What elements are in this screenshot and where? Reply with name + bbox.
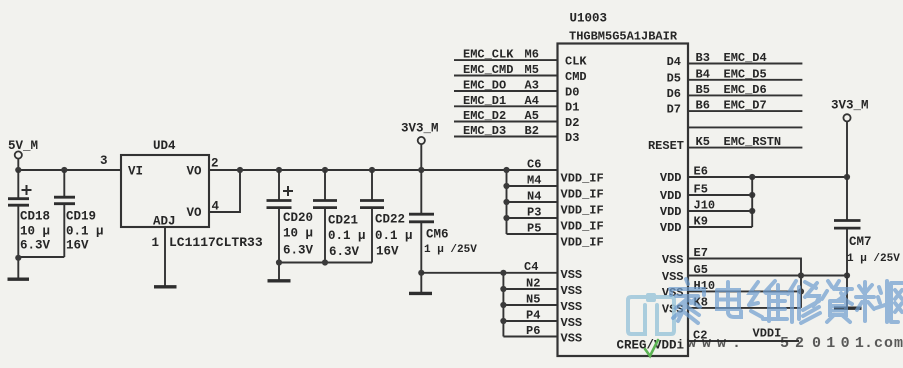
svg-text:VDDI: VDDI	[753, 327, 782, 341]
svg-text:P6: P6	[526, 324, 540, 338]
wire VDD E6 to 3V3 column	[688, 176, 847, 178]
svg-text:VSS: VSS	[561, 284, 583, 298]
wire VSS P4	[503, 320, 557, 322]
svg-text:N2: N2	[526, 277, 540, 291]
svg-text:VDD_IF: VDD_IF	[561, 220, 604, 234]
wire unlabeled pin row	[688, 126, 802, 128]
svg-text:N5: N5	[526, 293, 540, 307]
svg-text:3V3_M: 3V3_M	[831, 99, 869, 113]
node 5V at CD18	[15, 167, 21, 173]
net port 3V3_M (right)	[831, 99, 869, 122]
svg-text:P3: P3	[527, 206, 541, 220]
svg-text:D7: D7	[667, 103, 681, 117]
svg-text:VSS: VSS	[561, 316, 583, 330]
svg-text:VDD_IF: VDD_IF	[561, 236, 604, 250]
svg-text:10 µ: 10 µ	[20, 225, 50, 239]
wire EMC_D3	[454, 136, 558, 138]
svg-text:VDD_IF: VDD_IF	[561, 204, 604, 218]
svg-text:VO: VO	[187, 164, 203, 178]
wire VSS bus vertical (left)	[502, 273, 504, 337]
svg-text:G5: G5	[694, 263, 708, 277]
svg-text:EMC_D4: EMC_D4	[724, 51, 767, 65]
svg-text:F5: F5	[694, 183, 708, 197]
svg-text:E7: E7	[694, 246, 708, 260]
svg-text:16V: 16V	[376, 245, 399, 259]
svg-text:ADJ: ADJ	[153, 215, 176, 229]
wire 5V_M port to rail	[17, 159, 19, 170]
svg-text:CD18: CD18	[20, 210, 50, 224]
svg-text:P4: P4	[526, 309, 540, 323]
wire EMC_D4	[688, 63, 802, 65]
svg-text:6.3V: 6.3V	[329, 245, 360, 259]
node CM6 bottom	[418, 270, 424, 276]
node 5V at CD19	[61, 167, 67, 173]
svg-text:1 µ /25V: 1 µ /25V	[847, 253, 900, 265]
node bus at CD21	[322, 259, 328, 265]
svg-text:D6: D6	[667, 87, 681, 101]
ground below ADJ	[154, 285, 177, 288]
svg-text:EMC_CMD: EMC_CMD	[463, 63, 513, 77]
wire regulator VO to chip (3V3 rail)	[209, 169, 558, 171]
svg-text:16V: 16V	[66, 239, 89, 253]
ground below CM6	[409, 292, 432, 295]
svg-text:6.3V: 6.3V	[20, 239, 51, 253]
wire VSS P6	[503, 336, 557, 338]
wire 3V3_M port down to E6	[846, 121, 848, 177]
wire VDDI C2	[688, 340, 799, 342]
svg-text:0.1 µ: 0.1 µ	[328, 229, 366, 243]
wire VDD_IF P5	[507, 233, 558, 235]
svg-text:.com: .com	[864, 335, 903, 352]
svg-text:VSS: VSS	[561, 300, 583, 314]
node CD18/CD19 gnd leg	[15, 255, 21, 261]
watermark text 家电维修资料网	[670, 279, 903, 323]
家	[670, 279, 704, 323]
svg-text:C4: C4	[524, 260, 538, 274]
net port 3V3_M (middle)	[401, 122, 439, 145]
wire ADJ to ground	[164, 227, 166, 287]
wire VDD F5	[688, 194, 752, 196]
node G5/bus	[798, 272, 804, 278]
wire VSS H10	[688, 290, 801, 292]
ground below CD18	[8, 278, 30, 281]
wire VSS N2	[503, 288, 557, 290]
wire EMC_CLK	[454, 59, 558, 61]
wire VDD J10	[688, 210, 752, 212]
wire EMC_D2	[454, 121, 558, 123]
wire EMC_D5	[688, 79, 802, 81]
wire 3V3_M port to rail	[420, 144, 422, 170]
svg-text:VSS: VSS	[561, 332, 583, 346]
svg-text:52: 52	[780, 335, 810, 352]
svg-text:D4: D4	[667, 55, 681, 69]
op regulator UD4 box	[121, 155, 209, 227]
wire VSS G5 to CM7 column	[688, 275, 847, 277]
svg-text:EMC_D7: EMC_D7	[724, 99, 767, 113]
svg-text:0.1 µ: 0.1 µ	[66, 225, 104, 239]
svg-text:C6: C6	[527, 158, 541, 172]
svg-text:www.: www.	[687, 335, 747, 352]
ground below CD20	[268, 279, 291, 282]
wire EMC_RSTN	[688, 147, 802, 149]
svg-text:VDD_IF: VDD_IF	[561, 188, 604, 202]
svg-text:VDD: VDD	[660, 221, 682, 235]
svg-text:CD22: CD22	[375, 213, 405, 227]
svg-text:EMC_D2: EMC_D2	[463, 109, 506, 123]
svg-text:A3: A3	[525, 79, 539, 93]
node E6/CM7 column	[844, 174, 850, 180]
svg-text:VDD: VDD	[660, 205, 682, 219]
svg-text:K5: K5	[696, 135, 710, 149]
wire 5V rail to regulator VI	[18, 169, 121, 171]
wire VDD_IF M4	[507, 185, 558, 187]
svg-text:3V3_M: 3V3_M	[401, 122, 439, 136]
svg-text:CMD: CMD	[565, 70, 587, 84]
svg-text:CLK: CLK	[565, 54, 587, 68]
svg-text:K9: K9	[694, 215, 708, 229]
wire EMC_D1	[454, 105, 558, 107]
wire CD20/CD21/CD22 ground bus	[279, 262, 372, 264]
svg-text:EMC_D6: EMC_D6	[724, 83, 767, 97]
wire VDD K9	[688, 226, 752, 228]
svg-text:D0: D0	[565, 85, 579, 99]
svg-text:B5: B5	[696, 83, 710, 97]
svg-text:1 µ /25V: 1 µ /25V	[424, 244, 477, 256]
wire EMC_D7	[688, 110, 802, 112]
node VDD_IF C6	[503, 167, 509, 173]
svg-text:CD21: CD21	[328, 214, 358, 228]
svg-text:P5: P5	[527, 222, 541, 236]
svg-text:CM6: CM6	[426, 228, 449, 242]
wire VSS K8	[688, 307, 801, 309]
watermark logo (open book)	[628, 293, 674, 334]
svg-text:J10: J10	[694, 199, 716, 213]
svg-text:UD4: UD4	[153, 139, 176, 153]
svg-text:0.1 µ: 0.1 µ	[375, 229, 413, 243]
svg-text:B3: B3	[696, 51, 710, 65]
wire VDD_IF bus vertical	[506, 170, 508, 234]
svg-text:RESET: RESET	[648, 139, 684, 153]
svg-text:M4: M4	[527, 174, 541, 188]
svg-text:E6: E6	[694, 165, 708, 179]
料	[856, 281, 891, 322]
svg-text:VDD_IF: VDD_IF	[561, 172, 604, 186]
电	[717, 282, 741, 317]
capacitor CD22	[360, 167, 384, 263]
svg-text:VO: VO	[187, 206, 203, 220]
capacitor CD20	[267, 167, 294, 281]
svg-text:D3: D3	[565, 131, 579, 145]
svg-text:THGBM5G5A1JBAIR: THGBM5G5A1JBAIR	[569, 30, 678, 44]
wire VDD bus vertical	[751, 177, 753, 227]
capacitor CD18	[8, 170, 32, 280]
svg-text:EMC_D5: EMC_D5	[724, 67, 767, 81]
svg-text:6.3V: 6.3V	[283, 244, 314, 258]
node bus at CD20	[276, 259, 282, 265]
svg-text:VDD: VDD	[660, 189, 682, 203]
svg-text:D5: D5	[667, 71, 681, 85]
svg-text:CD19: CD19	[66, 210, 96, 224]
svg-text:VSS: VSS	[662, 253, 684, 267]
svg-text:D1: D1	[565, 101, 579, 115]
svg-text:B2: B2	[525, 124, 539, 138]
wire VSS E7 (right)	[688, 259, 801, 308]
check mark overlay	[645, 340, 658, 356]
资	[822, 281, 852, 322]
wire CD19 bottom to CD18 leg	[18, 256, 64, 258]
svg-text:U1003: U1003	[570, 12, 608, 26]
svg-text:EMC_D1: EMC_D1	[463, 94, 506, 108]
wire VDD_IF P3	[507, 217, 558, 219]
net port 5V_M	[8, 139, 38, 159]
node VSS C4	[500, 270, 506, 276]
svg-text:5V_M: 5V_M	[8, 139, 38, 153]
svg-text:3: 3	[100, 154, 108, 168]
svg-text:A4: A4	[525, 94, 539, 108]
svg-text:VDD: VDD	[660, 171, 682, 185]
wire VDD_IF N4	[507, 201, 558, 203]
svg-text:VI: VI	[128, 164, 143, 178]
svg-text:VSS: VSS	[561, 268, 583, 282]
svg-text:EMC_CLK: EMC_CLK	[463, 48, 514, 62]
svg-text:N4: N4	[527, 190, 541, 204]
node rail at CM6	[418, 167, 424, 173]
wire EMC_D6	[688, 94, 802, 96]
svg-text:B6: B6	[696, 99, 710, 113]
svg-text:EMC_RSTN: EMC_RSTN	[724, 135, 782, 149]
svg-text:A5: A5	[525, 109, 539, 123]
svg-text:VSS: VSS	[662, 270, 684, 284]
node pin4 riser on rail	[237, 167, 243, 173]
svg-text:EMC_D3: EMC_D3	[463, 124, 506, 138]
修	[788, 281, 820, 323]
svg-text:CREG/VDDi: CREG/VDDi	[617, 339, 685, 353]
svg-text:M6: M6	[525, 48, 539, 62]
node E6/bus	[749, 174, 755, 180]
watermark url www.520101.com	[687, 335, 903, 352]
svg-text:0101: 0101	[812, 335, 869, 352]
svg-text:M5: M5	[525, 63, 539, 77]
capacitor CM7	[834, 177, 861, 308]
svg-text:CD20: CD20	[283, 211, 313, 225]
网 (cut off at right edge)	[891, 283, 903, 322]
维	[749, 281, 787, 321]
capacitor CM6	[409, 170, 434, 293]
svg-text:2: 2	[211, 157, 219, 171]
svg-text:B4: B4	[696, 67, 710, 81]
wire CM6 bottom to chip VSS C4	[421, 272, 557, 274]
wire EMC_D0	[454, 90, 558, 92]
svg-text:1: 1	[152, 236, 160, 250]
node G5/CM7 column	[844, 272, 850, 278]
wire VSS N5	[503, 304, 557, 306]
svg-text:LC1117CLTR33: LC1117CLTR33	[169, 235, 263, 250]
capacitor CD19	[54, 170, 75, 257]
svg-text:10 µ: 10 µ	[283, 227, 313, 241]
wire EMC_CMD	[454, 75, 558, 77]
wire VO pin4 riser	[209, 170, 240, 212]
svg-text:EMC_DO: EMC_DO	[463, 79, 506, 93]
svg-text:D2: D2	[565, 116, 579, 130]
capacitor CD21	[313, 167, 337, 263]
svg-text:CM7: CM7	[849, 235, 872, 249]
chip U1003 body	[558, 44, 689, 357]
ground below CM7	[834, 307, 862, 310]
